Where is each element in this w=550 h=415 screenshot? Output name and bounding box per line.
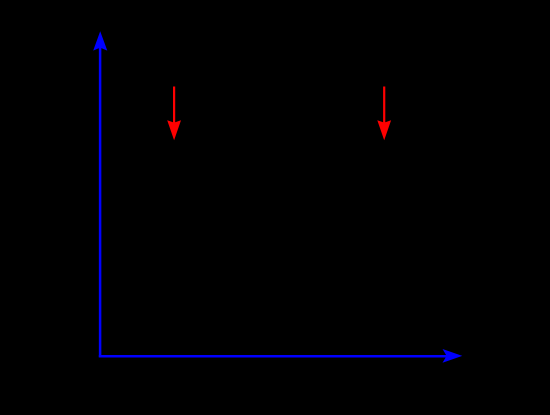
red arrow 2 [377,87,391,141]
x-axis [99,349,463,363]
red arrow 1 [167,87,181,141]
y-axis [93,31,107,357]
